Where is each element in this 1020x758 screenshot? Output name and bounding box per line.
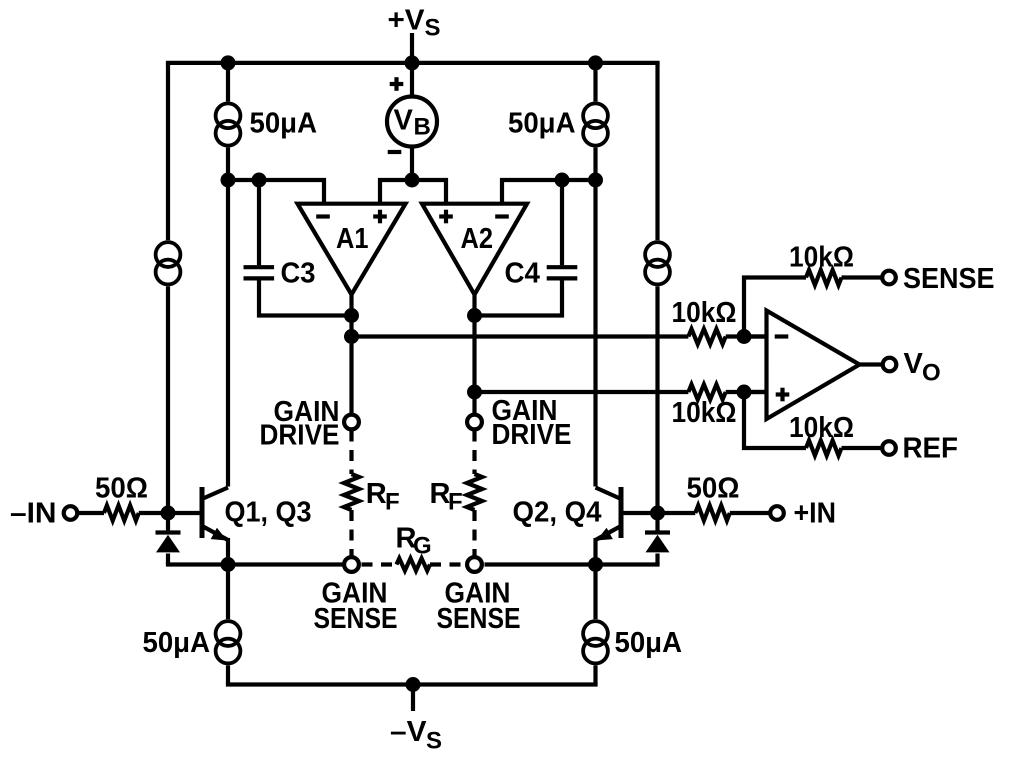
svg-text:50Ω: 50Ω [95, 473, 148, 505]
wire C3 bottom lead [259, 280, 352, 315]
svg-text:Q2, Q4: Q2, Q4 [513, 497, 602, 529]
wire ref line [744, 392, 806, 448]
svg-text:–V: –V [390, 716, 427, 748]
node top-center junction [405, 55, 420, 70]
capacitor C3 [244, 265, 275, 269]
svg-text:R: R [366, 478, 387, 510]
wire inner rail left segment [228, 180, 324, 204]
node A2 output junction [467, 308, 482, 323]
resistor R1 50ohm [104, 505, 139, 520]
svg-text:10kΩ: 10kΩ [672, 397, 737, 429]
wire left branch vertical lower [226, 180, 230, 487]
wire A2 to subtractor [475, 390, 689, 394]
terminal -IN [64, 506, 78, 520]
wire R3 to minus node [726, 334, 767, 338]
wire right tail vertical [593, 565, 597, 685]
wire A2 output vertical [472, 295, 476, 415]
wire R1 to base node [139, 511, 168, 515]
node C4 top junction [555, 173, 570, 188]
terminal REF [882, 441, 896, 455]
svg-text:–IN: –IN [10, 498, 56, 530]
wire dashed RF-GS right [472, 510, 476, 556]
transistor Q1 collector [203, 488, 228, 499]
transistor Q2 collector [596, 488, 621, 499]
svg-text:10kΩ: 10kΩ [789, 412, 854, 444]
svg-text:V: V [394, 105, 414, 137]
wire +IN to R2 [730, 511, 769, 515]
svg-text:REF: REF [903, 433, 959, 465]
current source I3 mid-left [154, 240, 183, 269]
svg-text:O: O [922, 360, 941, 387]
node top-left junction [221, 55, 236, 70]
current source I4 mid-right [643, 240, 672, 269]
node -VS junction [406, 677, 421, 692]
node A1 output junction [344, 308, 359, 323]
terminal GAIN DRIVE left [344, 415, 359, 430]
wire C4 top lead [560, 180, 564, 265]
label A2 plus input [439, 214, 453, 218]
svg-text:A1: A1 [336, 223, 369, 255]
svg-text:10kΩ: 10kΩ [789, 242, 854, 274]
wire sense line [744, 278, 806, 337]
svg-text:SENSE: SENSE [903, 263, 995, 295]
diode D2 anode lead [655, 513, 659, 533]
label U1 minus input [775, 334, 789, 338]
wire R6 to REF [842, 446, 881, 450]
svg-text:50μA: 50μA [143, 627, 211, 659]
capacitor C4 [547, 265, 578, 269]
wire R5 to SENSE [842, 275, 881, 279]
diode D1 anode lead [166, 513, 170, 533]
transistor Q1 emitter arrow [211, 528, 227, 541]
wire R2 to base node [658, 511, 696, 515]
svg-text:50Ω: 50Ω [687, 473, 740, 505]
current source I5 50uA bottom-left [214, 619, 243, 648]
resistor R5 10k sense [806, 270, 842, 285]
svg-text:C4: C4 [505, 258, 541, 290]
wire plus node to op-amp [744, 390, 767, 394]
label VB minus [388, 150, 402, 154]
wire Q2 emitter vertical [593, 538, 597, 565]
current source I1 50uA top-left [214, 101, 243, 130]
transistor Q2 emitter [596, 527, 621, 541]
resistor R4 10k [688, 384, 725, 399]
wire dashed GD-RF right [472, 431, 476, 475]
wire dashed RF-GS left [349, 510, 353, 556]
wire far-left vertical [166, 63, 170, 513]
node Q1 emitter junction [221, 557, 236, 572]
wire left branch vertical upper [226, 63, 230, 180]
svg-text:50μA: 50μA [615, 627, 683, 659]
svg-text:10kΩ: 10kΩ [672, 297, 737, 329]
label U1 plus input [776, 392, 790, 396]
svg-text:G: G [413, 533, 432, 560]
svg-text:SENSE: SENSE [314, 603, 398, 635]
op-amp U1 output [767, 311, 860, 420]
node A2 takeoff junction [467, 385, 482, 400]
svg-text:50μA: 50μA [250, 108, 318, 140]
wire dashed GD-RF left [349, 431, 353, 475]
svg-text:DRIVE: DRIVE [492, 419, 572, 451]
transistor Q1 base bar [200, 487, 205, 538]
resistor R2 50ohm [695, 505, 730, 520]
svg-text:S: S [426, 728, 442, 755]
terminal GAIN DRIVE right [467, 415, 482, 430]
label A1 plus input [373, 214, 387, 218]
node Q2 emitter junction [588, 557, 603, 572]
wire Q2 base lead [623, 511, 658, 515]
node -IN base junction [161, 506, 176, 521]
wire C4 bottom lead [475, 280, 563, 315]
wire Q1 base lead [168, 511, 200, 515]
svg-text:S: S [425, 15, 441, 42]
svg-text:DRIVE: DRIVE [260, 420, 340, 452]
svg-text:B: B [414, 114, 431, 141]
svg-text:SENSE: SENSE [437, 603, 521, 635]
resistor RF left [344, 474, 359, 510]
svg-text:V: V [904, 348, 924, 380]
node VB bottom junction [405, 173, 420, 188]
label VB plus [390, 82, 404, 86]
wire right branch vertical lower [593, 180, 597, 487]
terminal GAIN SENSE right [467, 557, 482, 572]
svg-text:50μA: 50μA [508, 108, 576, 140]
svg-text:F: F [448, 489, 463, 516]
resistor RG [397, 558, 431, 570]
current source I6 50uA bottom-right [581, 619, 610, 648]
wire bottom rail [226, 682, 598, 686]
wire Q1 emitter vertical [226, 538, 230, 565]
label A1 minus input [316, 214, 330, 218]
wire inner rail center segment [380, 180, 446, 204]
wire +VS stub [410, 33, 414, 63]
wire A1 to subtractor [352, 334, 689, 338]
node +IN base junction [650, 506, 665, 521]
node A1 takeoff junction [344, 329, 359, 344]
wire top rail [166, 61, 660, 65]
voltage source VB circle [387, 97, 437, 147]
node inner-right junction [588, 173, 603, 188]
svg-text:+V: +V [388, 5, 426, 37]
transistor Q1 emitter [203, 527, 228, 541]
wire -IN to R1 [79, 511, 104, 515]
wire dashed RG-GS right [430, 562, 465, 566]
terminal GAIN SENSE left [344, 557, 359, 572]
svg-text:C3: C3 [281, 258, 316, 290]
wire left emitter rail [166, 562, 344, 566]
label A2 minus input [495, 214, 509, 218]
transistor Q2 base bar [619, 487, 624, 538]
op-amp A2 [422, 204, 527, 295]
wire C3 top lead [257, 180, 261, 265]
svg-text:+IN: +IN [794, 498, 837, 530]
wire right emitter rail [485, 562, 660, 566]
op-amp A1 [298, 204, 406, 295]
wire inner rail right segment [502, 180, 596, 204]
wire minus node to op-amp [744, 334, 767, 338]
terminal SENSE [882, 271, 896, 285]
diode D2 [645, 530, 670, 534]
node C3 top junction [252, 173, 267, 188]
wire R4 to plus node [726, 390, 767, 394]
node subtractor minus junction [737, 329, 752, 344]
wire VB top lead [410, 63, 414, 97]
wire A1 output vertical [349, 295, 353, 415]
terminal +IN [770, 506, 784, 520]
wire right branch vertical upper [593, 63, 597, 180]
resistor R3 10k [688, 329, 725, 344]
svg-text:F: F [385, 489, 400, 516]
terminal VO [883, 358, 897, 372]
resistor RF right [467, 474, 482, 510]
wire U1 output [860, 362, 882, 366]
node subtractor plus junction [737, 385, 752, 400]
resistor R6 10k ref [806, 440, 842, 455]
node top-right junction [588, 55, 603, 70]
diode D1 [156, 530, 181, 534]
wire dashed GS-RG left [362, 562, 397, 566]
wire VB bottom lead [410, 147, 414, 181]
svg-text:A2: A2 [461, 223, 494, 255]
current source I2 50uA top-right [581, 101, 610, 130]
wire far-right vertical [655, 63, 659, 513]
node inner-left junction [221, 173, 236, 188]
wire left tail vertical [226, 565, 230, 685]
wire -VS stub [411, 685, 415, 712]
svg-text:Q1, Q3: Q1, Q3 [225, 497, 312, 529]
transistor Q2 emitter arrow [597, 528, 613, 541]
